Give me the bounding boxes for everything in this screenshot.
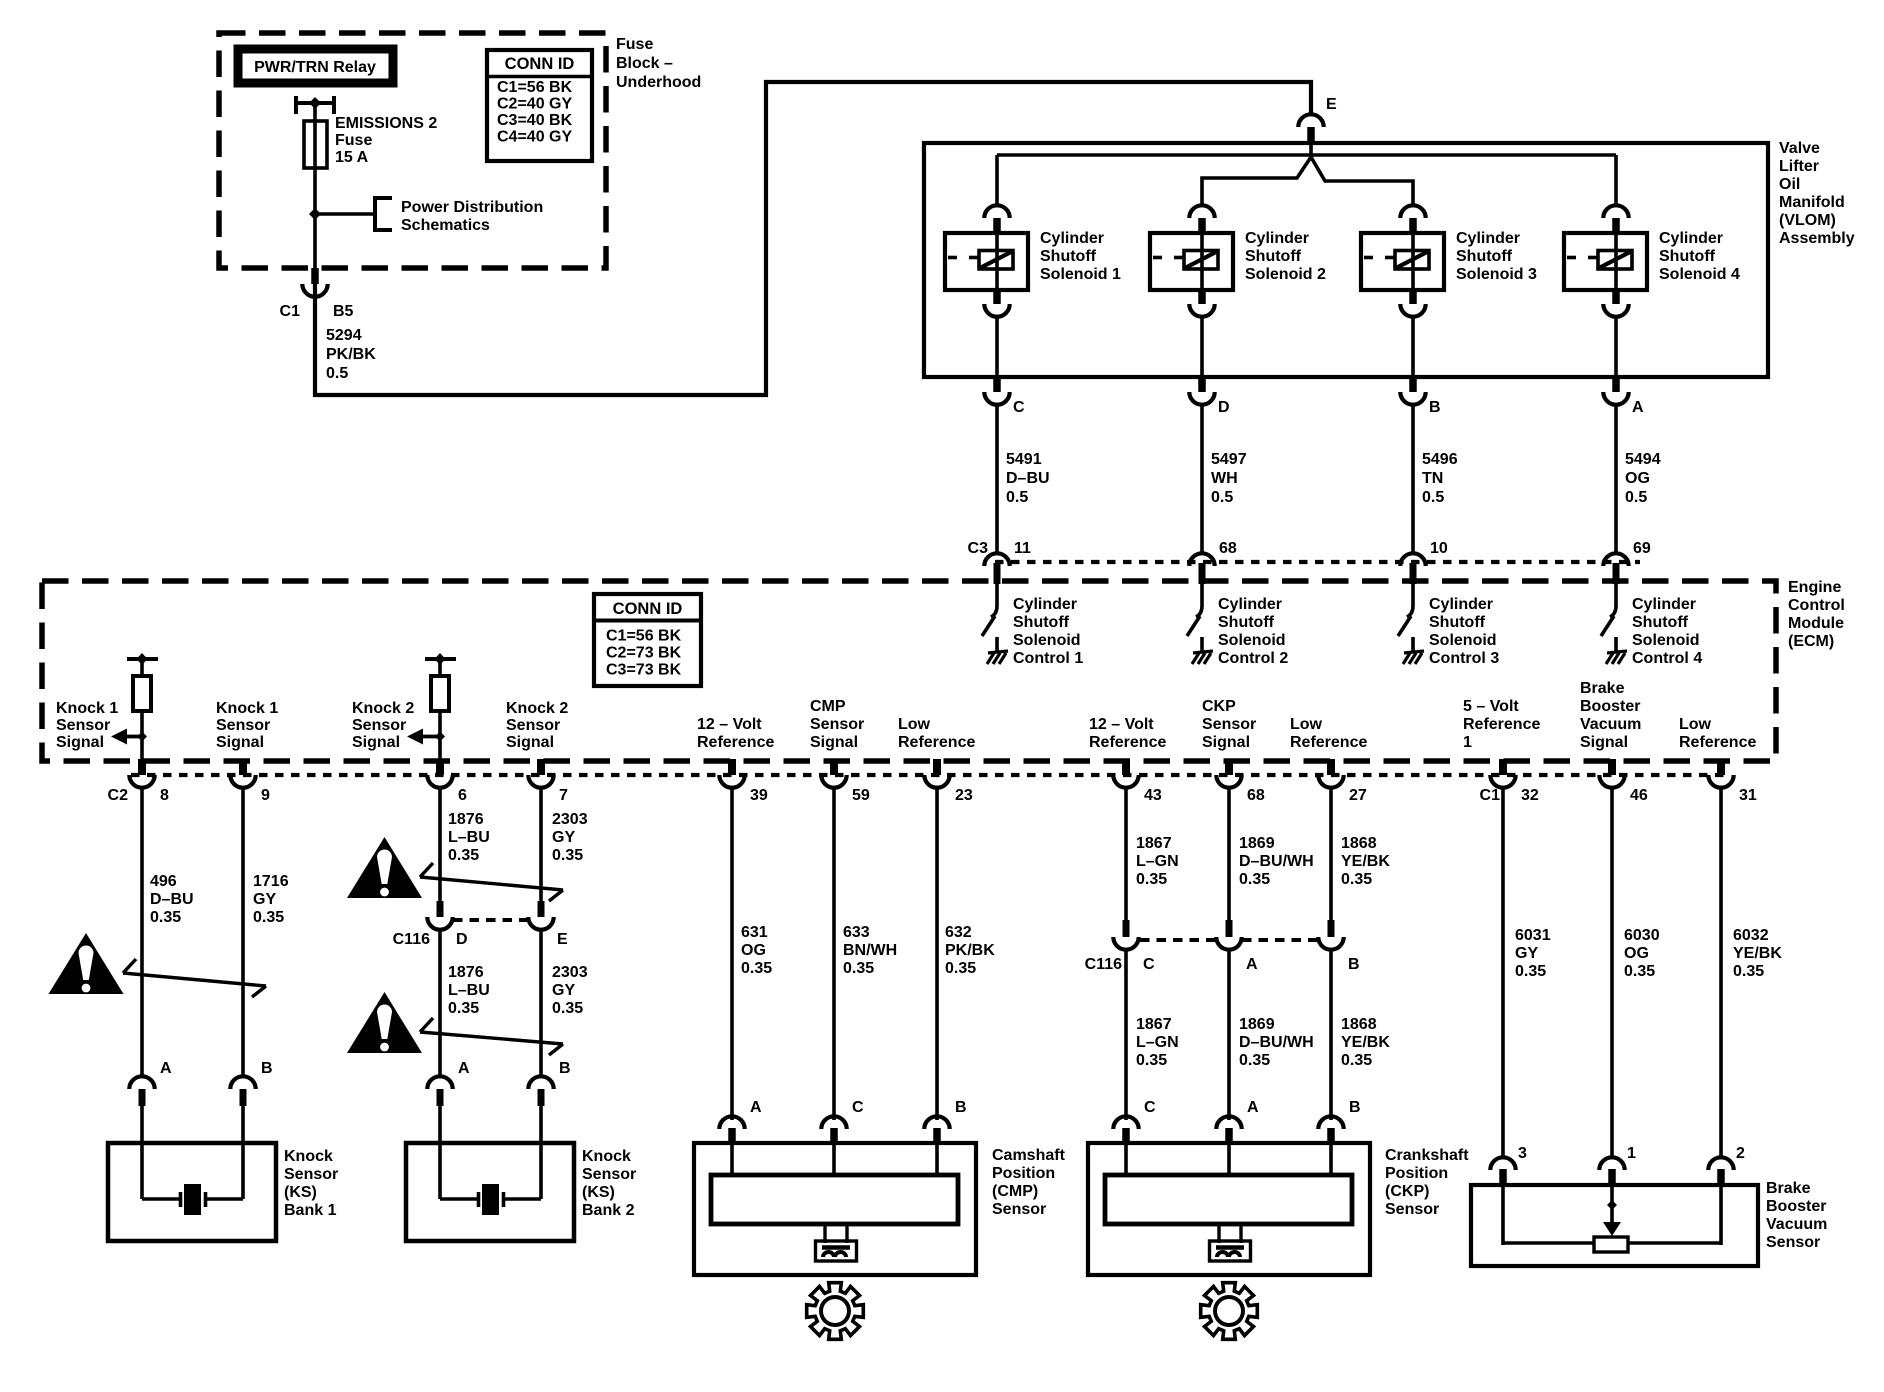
svg-text:C2: C2 <box>108 787 129 804</box>
svg-text:1716: 1716 <box>253 873 289 890</box>
svg-text:Knock 2: Knock 2 <box>352 700 414 717</box>
svg-text:WH: WH <box>1211 470 1238 487</box>
wire pin A into KS2 <box>438 1106 442 1199</box>
svg-text:39: 39 <box>750 787 768 804</box>
knock sensor 1 pin A connector <box>129 1060 172 1106</box>
knock sensor 1 pin B connector <box>230 1060 272 1106</box>
svg-text:TN: TN <box>1422 470 1443 487</box>
svg-text:PK/BK: PK/BK <box>326 346 376 363</box>
svg-text:Signal: Signal <box>56 734 104 751</box>
svg-text:Signal: Signal <box>506 734 554 751</box>
svg-text:0.35: 0.35 <box>1136 871 1167 888</box>
svg-text:B: B <box>955 1099 967 1116</box>
svg-text:12 – Volt: 12 – Volt <box>697 716 762 733</box>
ECM bottom connector dotted row <box>131 773 1725 777</box>
CMP sensor pin B connector <box>924 1099 966 1144</box>
svg-text:YE/BK: YE/BK <box>1341 853 1390 870</box>
wire 6031 GY 0.35 <box>1503 787 1551 1158</box>
svg-text:Module: Module <box>1788 615 1844 632</box>
C116 dashed tie line (CKP) <box>1140 938 1216 942</box>
interrupt annotation (knock 2 upper) <box>420 863 563 901</box>
svg-text:CONN ID: CONN ID <box>505 55 575 73</box>
svg-text:5497: 5497 <box>1211 451 1247 468</box>
warning symbol (knock 2 lower) <box>347 992 422 1053</box>
svg-text:C1=56 BK: C1=56 BK <box>606 628 682 645</box>
svg-text:631: 631 <box>741 924 768 941</box>
wire 1876 L-BU 0.35 (knock 2 lower) <box>440 929 490 1078</box>
wire junction to power distribution bracket <box>315 212 375 216</box>
svg-text:Reference: Reference <box>697 734 774 751</box>
wire 1716 GY 0.35 (knock 1 low) <box>243 787 289 1078</box>
svg-text:0.35: 0.35 <box>253 909 284 926</box>
svg-text:B5: B5 <box>333 303 354 320</box>
svg-text:D–BU/WH: D–BU/WH <box>1239 853 1314 870</box>
wire 6032 YE/BK 0.35 <box>1721 787 1782 1158</box>
svg-text:Reference: Reference <box>1463 716 1540 733</box>
svg-text:633: 633 <box>843 924 870 941</box>
svg-text:YE/BK: YE/BK <box>1341 1034 1390 1051</box>
svg-text:Fuse: Fuse <box>335 132 372 149</box>
wire 2303 GY 0.35 (knock 2 lower) <box>541 929 588 1078</box>
connector C116 pin E <box>528 901 568 948</box>
svg-text:Sensor: Sensor <box>1202 716 1256 733</box>
svg-text:CKP: CKP <box>1202 698 1236 715</box>
svg-text:Reference: Reference <box>898 734 975 751</box>
svg-text:6030: 6030 <box>1624 927 1660 944</box>
svg-text:Cylinder: Cylinder <box>1659 230 1723 247</box>
svg-text:Fuse: Fuse <box>616 36 653 53</box>
svg-text:C116: C116 <box>393 931 430 948</box>
svg-text:5491: 5491 <box>1006 451 1042 468</box>
brake booster vacuum sensor pin 2 connector <box>1708 1145 1745 1186</box>
svg-text:2303: 2303 <box>552 964 588 981</box>
svg-text:E: E <box>557 931 568 948</box>
svg-text:D: D <box>456 931 468 948</box>
svg-text:C1: C1 <box>280 303 301 320</box>
CONN ID table (ECM) <box>594 594 701 686</box>
svg-text:Engine: Engine <box>1788 579 1841 596</box>
svg-text:Sensor: Sensor <box>506 717 560 734</box>
svg-text:Vacuum: Vacuum <box>1766 1216 1827 1233</box>
cylinder shutoff solenoid 4 <box>1564 205 1740 316</box>
ECM pin 23 connector <box>924 759 973 804</box>
svg-text:C1: C1 <box>1480 787 1501 804</box>
svg-text:Sensor: Sensor <box>216 717 270 734</box>
svg-text:Solenoid 2: Solenoid 2 <box>1245 266 1326 283</box>
svg-text:A: A <box>160 1060 172 1077</box>
svg-text:46: 46 <box>1630 787 1648 804</box>
svg-text:L–GN: L–GN <box>1136 853 1179 870</box>
svg-text:(ECM): (ECM) <box>1788 633 1834 650</box>
svg-text:Shutoff: Shutoff <box>1218 614 1275 631</box>
wire 5496 TN 0.5 <box>1413 404 1458 552</box>
svg-text:A: A <box>1246 956 1258 973</box>
svg-text:5 – Volt: 5 – Volt <box>1463 698 1519 715</box>
svg-text:OG: OG <box>1624 945 1649 962</box>
svg-text:Booster: Booster <box>1580 698 1640 715</box>
reluctor wheel (CMP) <box>807 1283 864 1340</box>
svg-text:0.35: 0.35 <box>1239 1052 1270 1069</box>
svg-text:69: 69 <box>1633 540 1651 557</box>
svg-text:C: C <box>852 1099 864 1116</box>
svg-text:12 – Volt: 12 – Volt <box>1089 716 1154 733</box>
svg-text:A: A <box>750 1099 762 1116</box>
svg-text:OG: OG <box>741 942 766 959</box>
cylinder shutoff solenoid control 1 driver switch <box>982 584 997 653</box>
svg-text:Booster: Booster <box>1766 1198 1826 1215</box>
svg-text:0.35: 0.35 <box>552 847 583 864</box>
cylinder shutoff solenoid 3 <box>1361 205 1537 316</box>
svg-text:Low: Low <box>1290 716 1323 733</box>
svg-text:0.35: 0.35 <box>448 847 479 864</box>
wire pin A into KS1 <box>140 1106 144 1199</box>
svg-text:1876: 1876 <box>448 811 484 828</box>
svg-text:Assembly: Assembly <box>1779 230 1855 247</box>
svg-text:0.35: 0.35 <box>1624 963 1655 980</box>
wire 1876 L-BU 0.35 (knock 2 upper) <box>440 787 490 901</box>
svg-text:1869: 1869 <box>1239 1016 1275 1033</box>
svg-text:Signal: Signal <box>1202 734 1250 751</box>
connector C1 pin B5 (fuse block output) <box>280 268 354 320</box>
junction to power distribution tap <box>309 208 321 220</box>
svg-text:C: C <box>1144 1099 1156 1116</box>
svg-text:Sensor: Sensor <box>1766 1234 1820 1251</box>
svg-text:PK/BK: PK/BK <box>945 942 995 959</box>
svg-text:Control 3: Control 3 <box>1429 650 1499 667</box>
camshaft position (CMP) sensor <box>694 1143 976 1275</box>
svg-text:15 A: 15 A <box>335 149 369 166</box>
knock 2 sensor bias resistor <box>425 653 456 760</box>
svg-text:Low: Low <box>898 716 931 733</box>
ECM pin 46 connector <box>1599 759 1648 804</box>
knock 1 sensor signal arrow <box>111 729 147 745</box>
knock sensor 2 pin A connector <box>427 1060 470 1106</box>
brake booster vacuum sensor pin 3 connector <box>1490 1145 1527 1186</box>
svg-text:EMISSIONS 2: EMISSIONS 2 <box>335 115 437 132</box>
wire 6030 OG 0.35 <box>1612 787 1660 1158</box>
svg-text:Solenoid 3: Solenoid 3 <box>1456 266 1537 283</box>
wire fuse down to junction <box>313 168 317 268</box>
svg-text:C116: C116 <box>1085 956 1122 973</box>
PWR/TRN Relay box <box>238 49 393 83</box>
svg-text:5494: 5494 <box>1625 451 1661 468</box>
svg-text:Cylinder: Cylinder <box>1218 596 1282 613</box>
svg-text:0.35: 0.35 <box>843 960 874 977</box>
VLOM case pin B <box>1400 377 1440 416</box>
ECM pin 32 connector <box>1490 759 1539 804</box>
svg-text:C: C <box>1143 956 1155 973</box>
svg-text:YE/BK: YE/BK <box>1733 945 1782 962</box>
wire 1869 D-BU/WH 0.35 (CKP upper) <box>1229 787 1314 920</box>
CKP sensor pin B connector <box>1318 1099 1360 1144</box>
knock 1 sensor bias resistor <box>127 653 158 760</box>
svg-text:Power Distribution: Power Distribution <box>401 199 543 216</box>
svg-text:Cylinder: Cylinder <box>1013 596 1077 613</box>
warning symbol (knock 1 wires) <box>49 933 124 994</box>
brake booster vacuum sensor <box>1471 1185 1758 1266</box>
wire 1869 D-BU/WH 0.35 (CKP lower) <box>1229 949 1314 1120</box>
svg-text:D: D <box>1218 399 1230 416</box>
svg-text:Knock 1: Knock 1 <box>56 700 118 717</box>
svg-text:1: 1 <box>1627 1145 1636 1162</box>
wire V-split to solenoid 2 <box>1202 157 1311 207</box>
svg-text:Valve: Valve <box>1779 140 1820 157</box>
svg-text:(CMP): (CMP) <box>992 1183 1038 1200</box>
svg-text:Sensor: Sensor <box>352 717 406 734</box>
svg-text:C2=73 BK: C2=73 BK <box>606 645 682 662</box>
svg-text:Camshaft: Camshaft <box>992 1147 1066 1164</box>
svg-text:Solenoid 1: Solenoid 1 <box>1040 266 1121 283</box>
svg-text:Vacuum: Vacuum <box>1580 716 1641 733</box>
ECM pin 31 connector <box>1708 759 1757 804</box>
svg-text:(VLOM): (VLOM) <box>1779 212 1836 229</box>
knock sensor (KS) bank 2 <box>406 1143 574 1241</box>
svg-text:Lifter: Lifter <box>1779 158 1819 175</box>
relay contact symbol <box>296 96 334 114</box>
svg-text:10: 10 <box>1430 540 1448 557</box>
svg-text:GY: GY <box>552 982 575 999</box>
wire 1868 YE/BK 0.35 (CKP upper) <box>1331 787 1390 920</box>
wire pin B into KS1 <box>241 1106 245 1199</box>
svg-text:GY: GY <box>253 891 276 908</box>
svg-text:Signal: Signal <box>810 734 858 751</box>
svg-text:9: 9 <box>261 787 270 804</box>
svg-text:BN/WH: BN/WH <box>843 942 897 959</box>
svg-text:Shutoff: Shutoff <box>1040 248 1097 265</box>
ECM pin 69 connector C3 <box>1603 540 1651 584</box>
svg-text:6032: 6032 <box>1733 927 1769 944</box>
svg-text:1868: 1868 <box>1341 1016 1377 1033</box>
wire 2303 GY 0.35 (knock 2 upper) <box>541 787 588 901</box>
svg-text:0.35: 0.35 <box>741 960 772 977</box>
ground (solenoid control 2) <box>1192 651 1213 664</box>
svg-text:2303: 2303 <box>552 811 588 828</box>
svg-text:0.35: 0.35 <box>448 1000 479 1017</box>
wire 1868 YE/BK 0.35 (CKP lower) <box>1331 949 1390 1120</box>
svg-text:C: C <box>1013 399 1025 416</box>
ECM pin 43 connector <box>1113 759 1162 804</box>
svg-text:Brake: Brake <box>1766 1180 1811 1197</box>
svg-text:23: 23 <box>955 787 973 804</box>
svg-text:1867: 1867 <box>1136 1016 1172 1033</box>
svg-text:OG: OG <box>1625 470 1650 487</box>
connector C116 pin D <box>427 901 467 948</box>
cylinder shutoff solenoid 2 <box>1150 205 1326 316</box>
svg-text:C2=40 GY: C2=40 GY <box>497 96 572 113</box>
wire pin B into KS2 <box>539 1106 543 1199</box>
wire solenoid 2 to VLOM pin D <box>1200 316 1204 377</box>
svg-text:GY: GY <box>1515 945 1538 962</box>
svg-text:43: 43 <box>1144 787 1162 804</box>
svg-text:Signal: Signal <box>352 734 400 751</box>
svg-text:Signal: Signal <box>1580 734 1628 751</box>
svg-text:B: B <box>1348 956 1360 973</box>
svg-text:32: 32 <box>1521 787 1539 804</box>
power distribution schematics bracket <box>375 198 543 234</box>
svg-text:1876: 1876 <box>448 964 484 981</box>
svg-text:Reference: Reference <box>1679 734 1756 751</box>
svg-text:0.35: 0.35 <box>150 909 181 926</box>
VLOM case pin C <box>984 377 1025 416</box>
svg-text:Knock 1: Knock 1 <box>216 700 278 717</box>
svg-text:3: 3 <box>1518 1145 1527 1162</box>
svg-text:0.35: 0.35 <box>1515 963 1546 980</box>
svg-text:E: E <box>1326 96 1337 113</box>
fuse EMISSIONS 2 15 A <box>304 115 437 168</box>
svg-text:31: 31 <box>1739 787 1757 804</box>
svg-text:Shutoff: Shutoff <box>1632 614 1689 631</box>
svg-text:Shutoff: Shutoff <box>1013 614 1070 631</box>
svg-text:(KS): (KS) <box>284 1184 317 1201</box>
svg-text:Position: Position <box>1385 1165 1448 1182</box>
svg-text:Cylinder: Cylinder <box>1245 230 1309 247</box>
svg-text:0.5: 0.5 <box>326 365 348 382</box>
wire 633 BN/WH 0.35 (CMP signal) <box>834 787 897 1120</box>
svg-text:Signal: Signal <box>216 734 264 751</box>
ECM pin 10 connector C3 <box>1400 540 1448 584</box>
reluctor wheel (CKP) <box>1201 1283 1258 1340</box>
svg-text:Shutoff: Shutoff <box>1659 248 1716 265</box>
C116 dashed tie line (knock 2) <box>453 918 528 922</box>
wire 631 OG 0.35 (CMP 12V ref) <box>732 787 772 1120</box>
svg-text:PWR/TRN Relay: PWR/TRN Relay <box>254 59 376 76</box>
svg-text:5496: 5496 <box>1422 451 1458 468</box>
svg-text:L–GN: L–GN <box>1136 1034 1179 1051</box>
svg-text:Reference: Reference <box>1089 734 1166 751</box>
ECM pin 6 connector <box>427 759 467 804</box>
svg-text:68: 68 <box>1247 787 1265 804</box>
svg-text:Knock: Knock <box>284 1148 333 1165</box>
svg-text:Sensor: Sensor <box>56 717 110 734</box>
CKP sensor pin C connector <box>1113 1099 1156 1144</box>
svg-text:0.35: 0.35 <box>552 1000 583 1017</box>
svg-text:Shutoff: Shutoff <box>1456 248 1513 265</box>
svg-text:Cylinder: Cylinder <box>1456 230 1520 247</box>
svg-text:Block –: Block – <box>616 55 673 72</box>
connector E at VLOM <box>1298 96 1337 144</box>
svg-text:Bank 1: Bank 1 <box>284 1202 337 1219</box>
svg-text:Shutoff: Shutoff <box>1429 614 1486 631</box>
svg-text:Underhood: Underhood <box>616 74 701 91</box>
wire 632 PK/BK 0.35 (CMP low ref) <box>937 787 995 1120</box>
svg-text:6031: 6031 <box>1515 927 1551 944</box>
ECM pin 8 connector <box>129 759 169 804</box>
svg-text:C3=40 BK: C3=40 BK <box>497 112 573 129</box>
engine control module (ECM) dashed enclosure <box>42 581 1776 761</box>
svg-text:632: 632 <box>945 924 972 941</box>
svg-text:Sensor: Sensor <box>582 1166 636 1183</box>
wire E into VLOM bus <box>1309 144 1313 160</box>
ground (solenoid control 1) <box>987 651 1008 664</box>
svg-text:B: B <box>1429 399 1441 416</box>
VLOM case pin A <box>1603 377 1644 416</box>
svg-text:7: 7 <box>559 787 568 804</box>
svg-text:A: A <box>1632 399 1644 416</box>
svg-text:0.5: 0.5 <box>1422 489 1444 506</box>
svg-text:1869: 1869 <box>1239 835 1275 852</box>
wire from C1-B5 to VLOM connector E <box>315 82 1311 395</box>
svg-text:59: 59 <box>852 787 870 804</box>
wire solenoid 4 to VLOM pin A <box>1614 316 1618 377</box>
interrupt annotation (knock 2 lower) <box>420 1018 563 1055</box>
knock 2 sensor signal arrow <box>407 729 445 745</box>
svg-text:D–BU: D–BU <box>1006 470 1050 487</box>
svg-text:0.35: 0.35 <box>1341 871 1372 888</box>
svg-text:Manifold: Manifold <box>1779 194 1845 211</box>
ECM pin 39 connector <box>719 759 768 804</box>
svg-text:L–BU: L–BU <box>448 982 490 999</box>
ECM pin 7 connector <box>528 759 568 804</box>
svg-text:Knock 2: Knock 2 <box>506 700 568 717</box>
wire 5494 OG 0.5 <box>1616 404 1661 552</box>
connector C116 pin B (CKP) <box>1318 920 1359 973</box>
svg-text:Solenoid: Solenoid <box>1429 632 1497 649</box>
svg-text:Position: Position <box>992 1165 1055 1182</box>
svg-text:B: B <box>261 1060 273 1077</box>
ECM pin 11 connector C3 <box>984 540 1031 584</box>
svg-text:1: 1 <box>1463 734 1472 751</box>
svg-text:0.5: 0.5 <box>1211 489 1233 506</box>
ground (solenoid control 4) <box>1606 651 1627 664</box>
svg-text:Oil: Oil <box>1779 176 1800 193</box>
svg-text:CONN ID: CONN ID <box>613 600 683 618</box>
knock sensor 2 pin B connector <box>528 1060 570 1106</box>
CONN ID table (fuse block) <box>487 50 592 161</box>
svg-text:Schematics: Schematics <box>401 217 490 234</box>
svg-text:L–BU: L–BU <box>448 829 490 846</box>
ground (solenoid control 3) <box>1403 651 1424 664</box>
wire V-split to solenoid 3 <box>1311 157 1413 207</box>
svg-text:C3: C3 <box>968 540 989 557</box>
svg-text:C3=73 BK: C3=73 BK <box>606 662 682 679</box>
svg-text:(KS): (KS) <box>582 1184 615 1201</box>
valve lifter oil manifold (VLOM) box <box>924 143 1768 377</box>
svg-text:8: 8 <box>160 787 169 804</box>
svg-text:C4=40 GY: C4=40 GY <box>497 129 572 146</box>
wire 496 D-BU 0.35 (knock 1 signal) <box>142 787 194 1078</box>
svg-text:D–BU/WH: D–BU/WH <box>1239 1034 1314 1051</box>
svg-text:A: A <box>1247 1099 1259 1116</box>
svg-text:Knock: Knock <box>582 1148 631 1165</box>
wire bus down to solenoid 1 <box>995 155 999 207</box>
svg-text:0.35: 0.35 <box>1239 871 1270 888</box>
warning symbol (knock 2 upper) <box>347 837 422 898</box>
wire solenoid 1 to VLOM pin C <box>995 316 999 377</box>
svg-text:Low: Low <box>1679 716 1712 733</box>
ECM pin 59 connector <box>821 759 870 804</box>
wire 1867 L-GN 0.35 (CKP upper) <box>1126 787 1179 920</box>
svg-text:CMP: CMP <box>810 698 846 715</box>
VLOM internal bus wire to solenoids 1 and 4 <box>997 153 1616 157</box>
svg-text:Control: Control <box>1788 597 1845 614</box>
CMP sensor pin A connector <box>719 1099 762 1144</box>
ECM pin 9 connector <box>230 759 270 804</box>
svg-text:1868: 1868 <box>1341 835 1377 852</box>
svg-text:B: B <box>559 1060 571 1077</box>
svg-text:Cylinder: Cylinder <box>1040 230 1104 247</box>
svg-text:Sensor: Sensor <box>284 1166 338 1183</box>
svg-text:0.5: 0.5 <box>1006 489 1028 506</box>
knock sensor (KS) bank 1 <box>108 1143 276 1241</box>
svg-text:Cylinder: Cylinder <box>1632 596 1696 613</box>
interrupt annotation (knock 1 wires) <box>123 959 266 997</box>
svg-text:Cylinder: Cylinder <box>1429 596 1493 613</box>
wire relay to fuse <box>313 103 317 124</box>
svg-text:0.5: 0.5 <box>1625 489 1647 506</box>
wire solenoid 3 to VLOM pin B <box>1411 316 1415 377</box>
svg-text:Sensor: Sensor <box>992 1201 1046 1218</box>
svg-text:496: 496 <box>150 873 177 890</box>
